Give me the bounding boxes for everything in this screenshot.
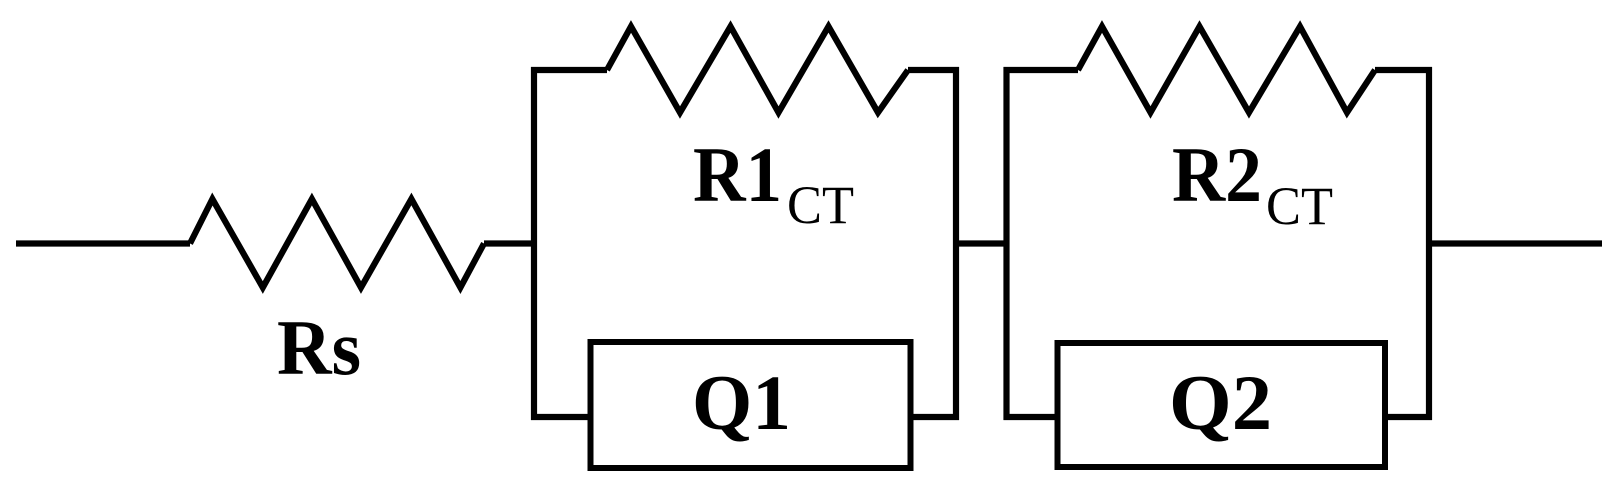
svg-text:Q1: Q1	[692, 359, 791, 446]
resistor Rs	[190, 199, 484, 288]
svg-text:Q2: Q2	[1169, 359, 1272, 446]
svg-text:Rs: Rs	[277, 304, 361, 391]
wire: node B between blocks	[953, 240, 1007, 246]
svg-text:R2: R2	[1172, 131, 1262, 218]
wire: input lead	[16, 240, 190, 246]
wire: R2CT to right rail	[1375, 67, 1432, 73]
resistor R2CT	[1078, 27, 1375, 113]
wire: output lead	[1429, 240, 1602, 246]
resistor R1CT	[607, 27, 908, 113]
wire: right rail of parallel block 1	[953, 67, 959, 420]
wire: right rail of parallel block 2	[1426, 67, 1432, 420]
wire: Rs to node A	[484, 240, 537, 246]
wire: bottom lead node A to Q1	[531, 414, 590, 420]
wire: top lead into R1CT	[531, 67, 607, 73]
wire: Q1 to right rail	[910, 414, 959, 420]
wire: bottom lead to Q2	[1004, 414, 1059, 420]
svg-text:R1: R1	[693, 131, 782, 218]
wire: left rail of parallel block 2	[1003, 67, 1009, 420]
wire: top lead into R2CT	[1004, 67, 1079, 73]
wire: R1CT to right rail	[908, 67, 959, 73]
svg-text:CT: CT	[1266, 176, 1333, 236]
wire: node A left rail of parallel block 1	[531, 67, 537, 420]
CPE Q1 box	[591, 342, 911, 468]
svg-text:CT: CT	[787, 175, 854, 235]
CPE Q2 box	[1058, 343, 1386, 467]
wire: Q2 to right rail	[1385, 414, 1432, 420]
